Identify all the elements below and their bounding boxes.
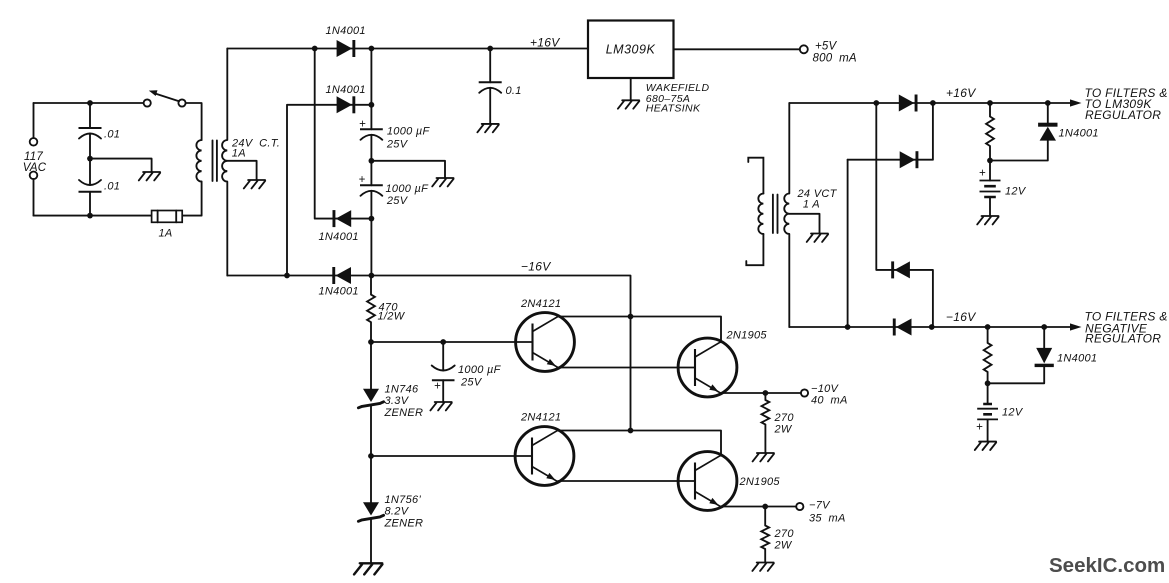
svg-text:1N4001: 1N4001 bbox=[1057, 352, 1097, 364]
svg-text:1000 µF: 1000 µF bbox=[458, 364, 502, 376]
svg-text:+16V: +16V bbox=[530, 36, 560, 50]
svg-text:+: + bbox=[359, 119, 366, 131]
svg-text:1N4001: 1N4001 bbox=[326, 25, 366, 37]
svg-text:+16V: +16V bbox=[946, 86, 976, 100]
svg-text:270: 270 bbox=[774, 412, 795, 424]
svg-text:1N746: 1N746 bbox=[385, 384, 419, 396]
svg-text:12V: 12V bbox=[1005, 185, 1027, 197]
svg-text:−7V: −7V bbox=[809, 500, 831, 512]
svg-text:1N4001: 1N4001 bbox=[1059, 128, 1099, 140]
svg-text:2N1905: 2N1905 bbox=[739, 476, 781, 488]
svg-text:25V: 25V bbox=[460, 377, 483, 389]
svg-text:ZENER: ZENER bbox=[384, 518, 424, 530]
svg-text:REGULATOR: REGULATOR bbox=[1085, 332, 1161, 346]
svg-text:270: 270 bbox=[774, 528, 795, 540]
svg-text:1N4001: 1N4001 bbox=[319, 286, 359, 298]
svg-text:2N4121: 2N4121 bbox=[520, 412, 561, 424]
svg-text:1N4001: 1N4001 bbox=[319, 231, 359, 243]
svg-text:LM309K: LM309K bbox=[606, 43, 656, 57]
svg-text:2N1905: 2N1905 bbox=[726, 330, 768, 342]
svg-text:+: + bbox=[976, 421, 983, 433]
svg-text:2W: 2W bbox=[774, 540, 793, 552]
svg-text:40 mA: 40 mA bbox=[811, 394, 848, 406]
svg-text:25V: 25V bbox=[386, 195, 409, 207]
svg-text:1000 µF: 1000 µF bbox=[386, 183, 430, 195]
svg-text:.01: .01 bbox=[104, 129, 120, 141]
svg-text:0.1: 0.1 bbox=[506, 85, 522, 97]
svg-text:800 mA: 800 mA bbox=[813, 53, 857, 65]
svg-text:+: + bbox=[434, 381, 441, 393]
svg-text:+: + bbox=[979, 168, 986, 180]
svg-text:−10V: −10V bbox=[811, 383, 840, 395]
svg-text:1/2W: 1/2W bbox=[378, 311, 406, 323]
svg-text:1000 µF: 1000 µF bbox=[387, 126, 431, 138]
svg-text:25V: 25V bbox=[386, 138, 409, 150]
svg-text:SeekIC.com: SeekIC.com bbox=[1049, 554, 1165, 577]
svg-text:−16V: −16V bbox=[946, 310, 976, 324]
svg-text:1A: 1A bbox=[159, 228, 173, 240]
svg-text:−16V: −16V bbox=[521, 260, 551, 274]
svg-text:VAC: VAC bbox=[23, 162, 47, 174]
svg-text:2N4121: 2N4121 bbox=[520, 298, 561, 310]
svg-text:+: + bbox=[359, 174, 366, 186]
svg-text:1N4001: 1N4001 bbox=[326, 84, 366, 96]
svg-text:35 mA: 35 mA bbox=[809, 512, 846, 524]
svg-text:ZENER: ZENER bbox=[384, 407, 424, 419]
svg-text:12V: 12V bbox=[1002, 407, 1024, 419]
svg-text:1A: 1A bbox=[232, 148, 246, 160]
svg-text:1N756’: 1N756’ bbox=[385, 494, 422, 506]
svg-text:.01: .01 bbox=[104, 181, 120, 193]
svg-text:REGULATOR: REGULATOR bbox=[1085, 108, 1161, 122]
svg-text:1 A: 1 A bbox=[803, 198, 820, 210]
svg-text:2W: 2W bbox=[774, 424, 793, 436]
svg-text:HEATSINK: HEATSINK bbox=[646, 103, 701, 115]
svg-text:+5V: +5V bbox=[815, 41, 838, 53]
svg-text:3.3V: 3.3V bbox=[385, 395, 410, 407]
svg-text:8.2V: 8.2V bbox=[385, 506, 410, 518]
